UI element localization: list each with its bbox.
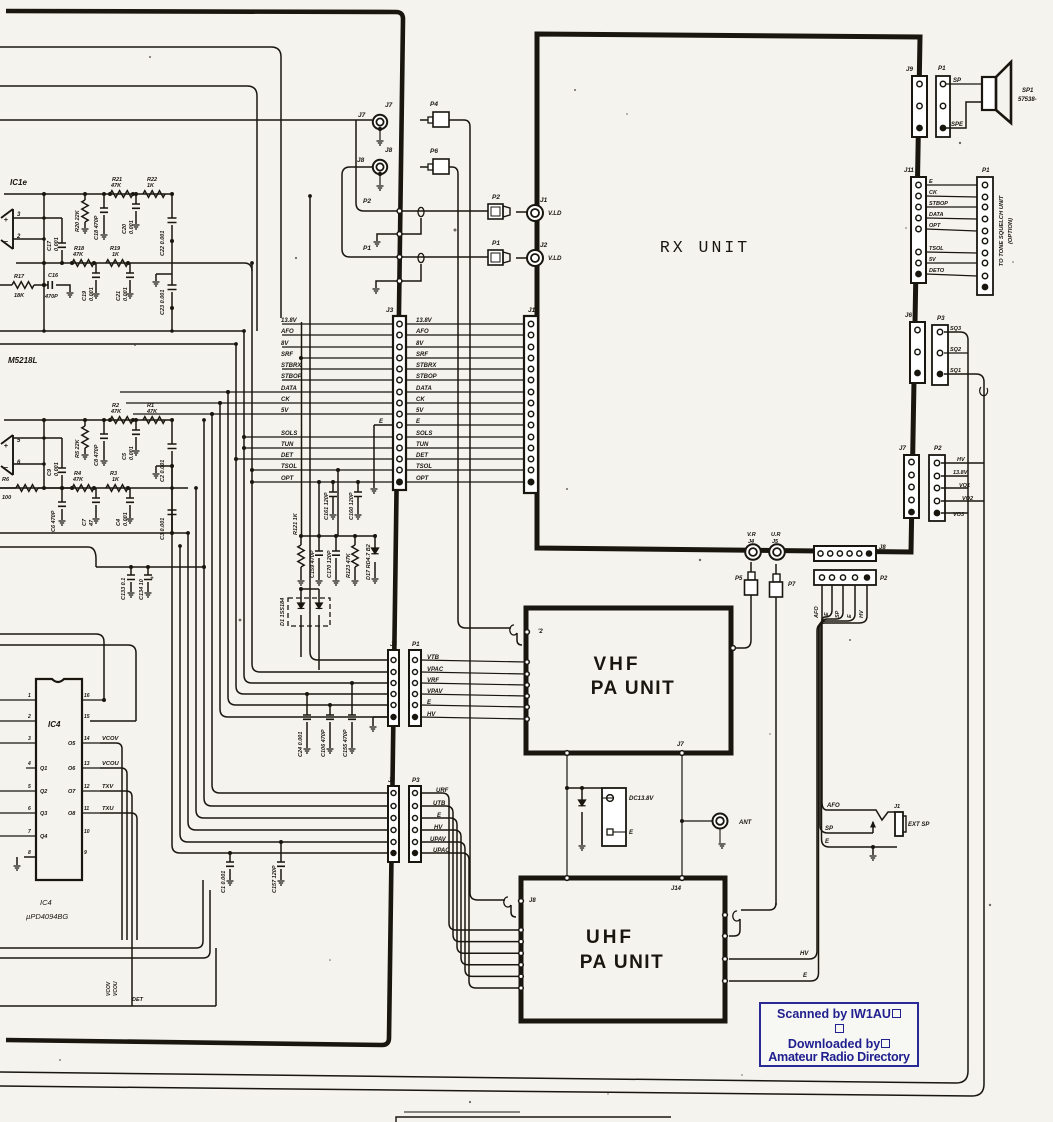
connector P2 strip xyxy=(814,570,876,585)
wire stub xyxy=(215,948,217,1006)
wire VO3 xyxy=(941,512,968,514)
contact HV on UHF xyxy=(723,957,728,962)
wire VHF J7 contact down to UHF J14 xyxy=(680,751,685,756)
wire UPAV from P3 xyxy=(421,842,521,976)
connector J7 body (right) xyxy=(904,455,919,518)
connector P1 tone pin 9 xyxy=(982,273,987,278)
connector J3 pin E xyxy=(397,422,402,427)
connector J11 pin DETO xyxy=(916,271,922,277)
capacitor C2 bottom junction xyxy=(171,466,173,488)
svg-text:J8: J8 xyxy=(529,898,536,904)
capacitor C21 0.001 xyxy=(129,263,131,293)
svg-text:VO1: VO1 xyxy=(959,483,970,489)
contact on VHF PA edge xyxy=(525,672,530,677)
wire STBOP left of J3 xyxy=(282,379,393,381)
wire J11 to tone P1 xyxy=(926,262,977,264)
wire CK J3 to J10 xyxy=(406,402,524,404)
svg-text:V.LD: V.LD xyxy=(548,210,562,217)
svg-text:STBOP: STBOP xyxy=(929,201,948,207)
wire DATA junction xyxy=(226,390,230,394)
wire to jack J7 xyxy=(0,119,372,121)
contact on VHF PA edge xyxy=(525,694,530,699)
wire into IC4 pin 16 xyxy=(0,634,104,700)
wire DET left of J3 xyxy=(236,458,393,460)
svg-text:1: 1 xyxy=(28,693,31,699)
capacitor C1 0.001 xyxy=(229,853,231,880)
svg-text:470P: 470P xyxy=(44,294,58,300)
svg-text:Q3: Q3 xyxy=(40,811,47,817)
svg-text:J9: J9 xyxy=(906,66,913,73)
connector J10 pin TSOL xyxy=(528,467,533,472)
svg-text:DC13.8V: DC13.8V xyxy=(629,796,654,802)
connector P2 pin HV filled xyxy=(864,575,870,581)
svg-text:100: 100 xyxy=(2,495,11,501)
svg-text:P3: P3 xyxy=(937,315,945,322)
svg-text:R20 22K: R20 22K xyxy=(75,209,81,232)
contact on VHF PA edge xyxy=(525,705,530,710)
wire J11 to tone P1 xyxy=(926,252,977,253)
svg-text:P2: P2 xyxy=(934,445,942,452)
connector J10 body xyxy=(524,316,538,493)
wire TSOL left of J3 xyxy=(252,469,393,471)
connector J9 pin 3 filled xyxy=(917,125,923,131)
resistor R6 100 xyxy=(0,487,72,489)
svg-text:5V: 5V xyxy=(416,408,424,414)
svg-text:C18 470P: C18 470P xyxy=(94,215,100,240)
jack U.R J5 on RX bottom xyxy=(769,544,785,560)
connector J4 pin 4 xyxy=(391,828,396,833)
svg-text:HV: HV xyxy=(800,951,809,957)
svg-text:VCOV: VCOV xyxy=(106,981,112,996)
svg-text:SOLS: SOLS xyxy=(416,431,432,437)
connector P1 body (VHF) xyxy=(409,650,421,726)
svg-text:J5: J5 xyxy=(772,539,779,545)
connector J6 pin 2 xyxy=(915,349,920,354)
connector J4 pin 3 xyxy=(391,816,396,821)
svg-text:J3: J3 xyxy=(386,307,394,314)
svg-text:CK: CK xyxy=(281,397,290,403)
svg-text:EXT SP: EXT SP xyxy=(908,822,930,828)
wire E J3 to J10 xyxy=(406,424,524,426)
wire bundle vertical xyxy=(188,533,389,830)
connector J6 pin 3 filled xyxy=(915,370,921,376)
plug P7 xyxy=(775,564,777,574)
connector J6 pin 1 xyxy=(915,327,920,332)
svg-text:O6: O6 xyxy=(68,766,76,772)
connector P1 tone pin 4 xyxy=(982,216,987,221)
connector P2 pin 3 xyxy=(840,575,845,580)
wire SOLS J3 to J10 xyxy=(406,436,524,438)
contact on UHF PA edge xyxy=(519,951,524,956)
wire branch down to P2 line xyxy=(356,120,364,211)
capacitor C19 0.001 xyxy=(95,263,97,293)
rail above R121 xyxy=(301,535,375,537)
svg-text:13.8V: 13.8V xyxy=(416,318,433,324)
IC4 pin 1 xyxy=(0,699,36,701)
connector P1 pin HV xyxy=(412,714,417,719)
connector P1 tone pin 6 xyxy=(982,238,987,243)
svg-text:VPAV: VPAV xyxy=(427,689,443,695)
connector J10 pin 13.8V xyxy=(528,321,533,326)
wire J11 to tone P1 xyxy=(926,184,977,186)
capacitor C24 0.001 xyxy=(306,694,308,748)
diode D1b xyxy=(301,589,319,670)
svg-text:P1: P1 xyxy=(412,641,420,648)
svg-text:C20: C20 xyxy=(122,224,128,234)
svg-text:8: 8 xyxy=(28,850,31,856)
loop J2 on VHF unit xyxy=(466,627,511,629)
svg-text:0.001: 0.001 xyxy=(129,446,135,460)
wire HV from P2 xyxy=(729,585,867,959)
svg-text:8V: 8V xyxy=(281,341,289,347)
wire bundle vertical xyxy=(310,196,389,660)
IC4 pin 4 xyxy=(26,767,36,769)
capacitor C8 470P xyxy=(103,420,105,460)
wire DATA left of J3 xyxy=(120,391,393,393)
wire top rail xyxy=(4,419,172,421)
svg-text:C159 470P: C159 470P xyxy=(310,550,316,578)
svg-text:P1: P1 xyxy=(938,65,946,72)
resistor R5 22K xyxy=(84,420,86,454)
wire bottom feed block2 xyxy=(0,510,188,533)
connector J3 pin DET xyxy=(397,456,402,461)
capacitor C160 120P xyxy=(357,482,359,514)
capacitor C170 120P xyxy=(335,536,337,580)
svg-text:O8: O8 xyxy=(68,811,76,817)
connector P2 body (right) xyxy=(929,455,945,521)
svg-text:J8: J8 xyxy=(385,147,393,154)
connector P1 pin VPAV xyxy=(413,692,418,697)
svg-text:R123 47K: R123 47K xyxy=(346,552,352,578)
wire TSOL OPT junctions xyxy=(250,468,254,472)
svg-text:0.001: 0.001 xyxy=(54,462,60,476)
svg-text:VCOU: VCOU xyxy=(102,761,120,767)
ground stub right xyxy=(156,466,172,473)
op-amp M5218L xyxy=(1,435,13,475)
connector J3 pin CK xyxy=(397,400,402,405)
svg-text:7: 7 xyxy=(28,829,31,835)
contact on UHF PA edge xyxy=(519,939,524,944)
connector J11 pin STBOP xyxy=(916,204,921,209)
wire SP to EXT SP xyxy=(828,822,873,833)
wire OPT J3 to J10 xyxy=(406,481,524,483)
connector J5 pin 6 xyxy=(391,714,396,719)
svg-text:'2: '2 xyxy=(538,629,543,635)
capacitor C159 470P xyxy=(318,536,320,580)
connector J11 pin OPT xyxy=(916,226,921,231)
svg-text:J5: J5 xyxy=(390,641,397,648)
capacitor C6 470P xyxy=(61,488,63,520)
capacitor C134 10 xyxy=(147,567,149,592)
svg-text:5V: 5V xyxy=(281,408,289,414)
svg-text:SQ1: SQ1 xyxy=(950,368,961,374)
wire bundle vertical xyxy=(212,414,389,793)
svg-text:C1 0.001: C1 0.001 xyxy=(221,871,227,893)
connector J10 pin E xyxy=(528,422,533,427)
wire bundle vertical xyxy=(172,488,389,853)
svg-text:J7: J7 xyxy=(385,102,393,109)
capacitor C23 lower lead xyxy=(171,308,173,331)
svg-text:J1: J1 xyxy=(540,197,548,204)
connector J3 pin SRF xyxy=(397,355,402,360)
svg-text:C4: C4 xyxy=(116,519,122,526)
svg-text:IC4: IC4 xyxy=(40,898,52,907)
svg-text:47K: 47K xyxy=(110,409,122,415)
wire op-amp input bottom xyxy=(13,463,44,465)
wire HV from P3 xyxy=(421,830,521,965)
svg-text:SPE: SPE xyxy=(951,122,964,128)
resistor R4 47K xyxy=(72,485,94,492)
svg-text:IC1e: IC1e xyxy=(10,178,27,187)
svg-text:P1: P1 xyxy=(982,167,990,174)
svg-text:C9: C9 xyxy=(47,468,53,476)
connector J5 pin 3 xyxy=(391,681,396,686)
svg-text:URF: URF xyxy=(436,788,449,794)
svg-text:13.8V: 13.8V xyxy=(281,318,298,324)
svg-text:P3: P3 xyxy=(412,777,420,784)
svg-text:8V: 8V xyxy=(416,341,424,347)
connector P3 pin UPAC xyxy=(412,850,417,855)
wire HV to VHF unit xyxy=(421,717,526,719)
svg-text:SQ3: SQ3 xyxy=(950,326,961,332)
connector J10 pin CK xyxy=(528,400,533,405)
ground stub below J5 xyxy=(373,717,388,726)
svg-text:C3 0.001: C3 0.001 xyxy=(160,518,166,540)
contact on UHF PA edge xyxy=(519,963,524,968)
wire 13.8V left of J3 xyxy=(282,323,393,325)
connector J3 body xyxy=(393,316,406,490)
wire ANT junction xyxy=(680,819,684,823)
connector J5 pin 4 xyxy=(391,692,396,697)
wire SP from P2 xyxy=(820,585,843,833)
wire DATA J3 to J10 xyxy=(406,391,524,393)
connector P1 tone pin 2 xyxy=(982,194,987,199)
svg-text:P2: P2 xyxy=(880,576,888,582)
wire bundle vertical xyxy=(252,263,389,672)
svg-text:15: 15 xyxy=(84,714,90,720)
connector J4 body xyxy=(388,786,399,862)
svg-text:E: E xyxy=(847,614,853,618)
wire SPE to speaker xyxy=(946,102,982,128)
svg-text:ANT: ANT xyxy=(738,820,753,826)
svg-text:C22 0.001: C22 0.001 xyxy=(160,231,166,256)
connector P1 tone pin 8 xyxy=(982,260,987,265)
svg-text:SP1: SP1 xyxy=(1022,88,1034,94)
plug P1 body xyxy=(488,250,503,265)
resistor R17 18K xyxy=(0,284,44,286)
svg-text:AFO: AFO xyxy=(814,606,820,619)
wire J11 to tone P1 xyxy=(926,274,977,276)
wire 13.8V feed xyxy=(0,330,244,332)
wire E from P2 xyxy=(822,585,833,847)
svg-text:J7: J7 xyxy=(358,112,366,119)
svg-text:0.001: 0.001 xyxy=(54,237,60,251)
connector J3 pin 13.8V xyxy=(397,321,402,326)
svg-text:C161 120P: C161 120P xyxy=(324,492,330,520)
connector P1 pin SP xyxy=(940,81,945,86)
svg-text:UPAV: UPAV xyxy=(430,837,447,843)
UHF PA UNIT box xyxy=(521,878,725,1021)
svg-text:HV: HV xyxy=(859,609,865,618)
op-amp IC1e xyxy=(1,209,13,249)
wire VO2 xyxy=(941,500,984,502)
wire OPT left of J3 xyxy=(252,481,393,483)
connector J3 pin AFO xyxy=(397,332,402,337)
resistor R19 1K xyxy=(106,260,128,267)
wire lower feed 2 xyxy=(0,890,210,958)
connector J4 pin 5 xyxy=(391,840,396,845)
svg-text:D17 RD4.7 B2: D17 RD4.7 B2 xyxy=(366,544,372,580)
svg-text:J4: J4 xyxy=(388,777,395,784)
connector J3 pin 8V xyxy=(397,344,402,349)
wire 13.8V J3 to J10 xyxy=(406,323,524,325)
svg-text:HV: HV xyxy=(434,825,443,831)
connector P1 pin SPE filled xyxy=(940,125,946,131)
wire op-amp input bottom xyxy=(13,238,44,240)
connector P3 pin UTB xyxy=(413,804,418,809)
svg-text:UPAC: UPAC xyxy=(433,848,450,854)
wire E from P3 xyxy=(421,818,521,953)
connector J3 pin DATA xyxy=(397,389,402,394)
svg-text:TSOL: TSOL xyxy=(416,464,432,470)
connector J10 pin STBRX xyxy=(528,366,533,371)
connector P2 pin 1 xyxy=(934,460,939,465)
connector P1 pin E xyxy=(413,703,418,708)
ground stub right xyxy=(156,274,172,281)
wire J11 to tone P1 xyxy=(926,218,977,219)
connector J10 pin OPT filled xyxy=(528,479,534,485)
svg-text:11: 11 xyxy=(84,806,89,812)
connector P1 pin 2 xyxy=(940,103,945,108)
svg-text:HV: HV xyxy=(427,712,436,718)
svg-text:R121 1K: R121 1K xyxy=(293,512,299,535)
wire VPAC to VHF unit xyxy=(421,672,526,674)
plug P6 xyxy=(420,166,428,168)
svg-text:VCOV: VCOV xyxy=(102,736,120,742)
svg-text:C24 0.001: C24 0.001 xyxy=(298,732,304,757)
svg-text:57538-: 57538- xyxy=(1018,97,1037,103)
diode D feeding DC jack xyxy=(581,788,583,845)
wire lower feed 1 xyxy=(0,880,203,948)
wire TUN J3 to J10 xyxy=(406,447,524,449)
svg-text:4: 4 xyxy=(27,761,31,767)
svg-text:C170 120P: C170 120P xyxy=(327,550,333,578)
capacitor C23 0.001 (lower inter-rail) xyxy=(171,263,173,308)
svg-text:0.001: 0.001 xyxy=(89,287,95,301)
contact on VHF PA edge xyxy=(525,717,530,722)
wire E2 from P2 xyxy=(729,585,855,981)
connector J5 pin 1 xyxy=(391,658,396,663)
IC4 pin 2 xyxy=(0,720,36,722)
connector P1 tone pin 3 xyxy=(982,204,987,209)
capacitor C157 120P xyxy=(280,842,282,880)
svg-text:C23 0.001: C23 0.001 xyxy=(160,290,166,315)
connector P3 pin SQ1 filled xyxy=(937,371,943,377)
resistor R3 1K xyxy=(106,485,128,492)
svg-text:−: − xyxy=(4,463,9,472)
svg-text:STBRX: STBRX xyxy=(281,363,302,369)
wire 5V left of J3 xyxy=(133,413,393,415)
svg-text:OPT: OPT xyxy=(281,476,295,482)
connector J11 pin DATA xyxy=(916,215,921,220)
connector P1 tone body xyxy=(977,177,993,295)
svg-text:1K: 1K xyxy=(147,183,155,189)
svg-text:P5: P5 xyxy=(735,576,743,582)
wire SQ3 xyxy=(0,332,968,1083)
wire VRF to VHF unit xyxy=(421,683,526,685)
svg-text:SRF: SRF xyxy=(281,352,293,358)
connector J10 pin TUN xyxy=(528,445,533,450)
RX UNIT box xyxy=(537,34,920,552)
connector J7 pin 3 xyxy=(909,484,914,489)
wire E to VHF unit xyxy=(421,705,526,707)
svg-text:1K: 1K xyxy=(112,252,120,258)
contact on UHF PA edge xyxy=(519,986,524,991)
plug P5 xyxy=(750,562,752,572)
svg-text:CK: CK xyxy=(416,397,425,403)
connector J9 body xyxy=(912,76,927,137)
svg-text:(OPTION): (OPTION) xyxy=(1008,218,1014,244)
svg-text:STBRX: STBRX xyxy=(416,363,437,369)
VHF PA UNIT box xyxy=(526,608,731,753)
capacitor C9 0.001 (input) xyxy=(61,438,63,488)
svg-text:3: 3 xyxy=(28,736,31,742)
connector P1 tone pin 5 xyxy=(982,228,987,233)
capacitor C2 0.001 (inter-rail) xyxy=(171,420,173,488)
svg-text:P2: P2 xyxy=(492,194,500,201)
connector J10 pin 5V xyxy=(528,411,533,416)
connector J11 body xyxy=(911,177,926,283)
wire UTB from P3 xyxy=(421,806,521,942)
svg-text:R17: R17 xyxy=(14,274,25,280)
IC4 pin 3 xyxy=(0,742,36,744)
svg-text:C2 0.001: C2 0.001 xyxy=(160,460,166,482)
resistor R121 1K xyxy=(300,536,302,580)
resistor R22 1K/47K xyxy=(143,191,165,198)
svg-text:C6 470P: C6 470P xyxy=(51,510,57,532)
wire STBRX left of J3 xyxy=(282,368,393,370)
svg-text:−: − xyxy=(4,237,9,246)
connector J7 pin 4 xyxy=(909,497,914,502)
svg-text:VRF: VRF xyxy=(427,678,439,684)
connector J9 pin 1 xyxy=(917,81,922,86)
capacitor C4 0.001 xyxy=(129,488,131,518)
wire J11 to tone P1 xyxy=(926,196,977,197)
svg-text:D1 1SS184: D1 1SS184 xyxy=(280,598,286,626)
ground stub near P1 xyxy=(376,264,421,288)
svg-text:DET: DET xyxy=(132,997,144,1003)
svg-text:DET: DET xyxy=(416,453,429,459)
wire TSOL drop xyxy=(336,468,340,472)
connector J8 pin 4 xyxy=(847,551,852,556)
svg-text:VO3: VO3 xyxy=(953,512,964,518)
connector P1 speaker body xyxy=(936,76,950,137)
svg-text:SQ2: SQ2 xyxy=(950,347,961,353)
wire into IC4 pin 15 xyxy=(0,645,136,721)
svg-text:µPD4094BG: µPD4094BG xyxy=(26,912,68,921)
wire 5V junction xyxy=(210,412,214,416)
svg-text:TXU: TXU xyxy=(102,806,114,812)
svg-text:9: 9 xyxy=(84,850,87,856)
svg-text:0.001: 0.001 xyxy=(129,220,135,234)
connector P2 pin 4 xyxy=(852,575,857,580)
svg-text:Q4: Q4 xyxy=(40,834,47,840)
wire SOLS left of J3 xyxy=(244,436,393,438)
svg-text:U.R: U.R xyxy=(771,532,781,538)
wire J11 to tone P1 xyxy=(926,206,977,208)
connector J4 pin 2 xyxy=(391,804,396,809)
wire 8V left of J3 xyxy=(282,346,393,348)
